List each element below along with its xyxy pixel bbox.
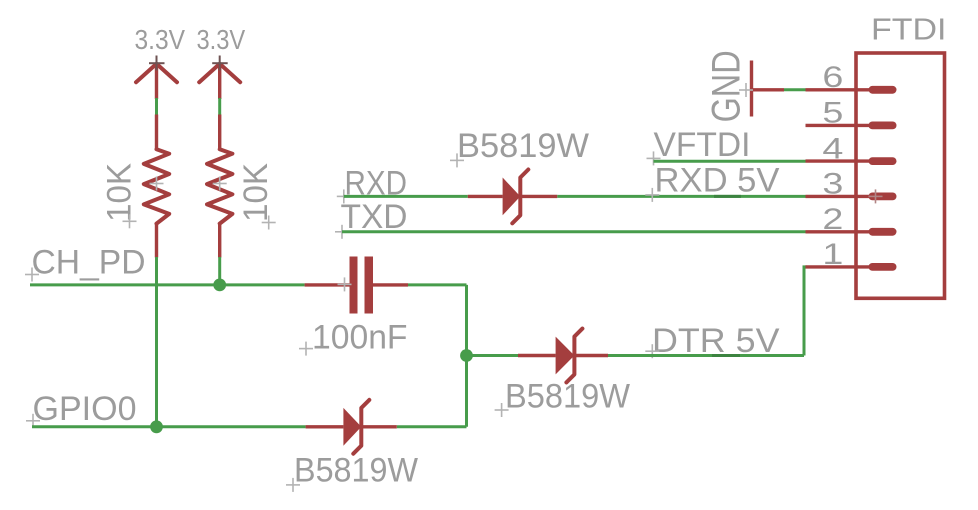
wire CH_PD right of capacitor: [408, 283, 467, 286]
value label B5819W (D1): [450, 127, 589, 167]
wire RXD left segment: [344, 195, 468, 198]
power +3V3 arrow symbol P2: [199, 56, 240, 100]
svg-text:B5819W: B5819W: [457, 127, 589, 165]
net label CH_PD: [25, 244, 146, 282]
svg-text:100nF: 100nF: [312, 318, 408, 356]
value label 10K (R2): [237, 163, 276, 230]
wire R1 vertical to GPIO0: [155, 257, 158, 427]
wire GPIO0 left segment: [32, 425, 306, 428]
junction DTR branch: [460, 349, 473, 362]
svg-text:3.3V: 3.3V: [197, 24, 246, 55]
net label GPIO0: [26, 390, 137, 428]
net label TXD: [335, 198, 408, 239]
wire VFTDI: [654, 160, 806, 163]
wire supply to R2: [218, 98, 221, 115]
svg-text:3.3V: 3.3V: [135, 24, 186, 55]
pin 3 lead and pad: [806, 189, 897, 203]
net label RXD_5V underscore on wire: [714, 195, 741, 198]
net label RXD_5V: [645, 161, 780, 202]
svg-text:VFTDI: VFTDI: [654, 126, 751, 164]
value label B5819W (D3): [495, 377, 630, 417]
connector FTDI body: [856, 53, 945, 298]
svg-text:5: 5: [822, 97, 843, 130]
pin 6 lead and pad: [806, 86, 897, 94]
capacitor C1: [305, 257, 408, 314]
pin 2 lead and pad: [806, 228, 897, 236]
value label 100nF: [299, 318, 408, 356]
net label DTR_5V: [645, 322, 780, 360]
svg-text:FTDI: FTDI: [871, 13, 947, 47]
resistor R2: [207, 115, 232, 258]
value label B5819W (D2): [286, 451, 418, 492]
wire DTR left segment: [467, 354, 519, 357]
diode D2 B5819W (GPIO0 line): [306, 400, 397, 454]
pin 1 lead and pad: [806, 263, 897, 271]
svg-text:1: 1: [822, 238, 843, 271]
wire R2 stub to CH_PD: [218, 257, 221, 285]
junction R2/CH_PD: [213, 279, 226, 292]
svg-text:2: 2: [822, 203, 843, 236]
pin 5 lead and pad: [806, 122, 897, 130]
svg-text:3: 3: [822, 168, 843, 201]
resistor R1: [144, 115, 169, 258]
power +3V3 arrow symbol P1: [136, 56, 177, 100]
ground symbol GND: [739, 61, 784, 117]
wire RXD_5V segment: [557, 195, 805, 198]
svg-text:RXD 5V: RXD 5V: [655, 161, 780, 199]
svg-text:B5819W: B5819W: [294, 451, 418, 489]
svg-text:GPIO0: GPIO0: [33, 390, 137, 428]
wire GND to pin 6: [784, 88, 806, 91]
wire CH_PD left segment: [30, 283, 305, 286]
svg-text:10K: 10K: [101, 163, 139, 222]
svg-text:10K: 10K: [237, 163, 275, 222]
net label VFTDI: [647, 126, 751, 166]
wire DTR right segment: [608, 354, 804, 357]
wire TXD: [342, 230, 806, 233]
net label RXD: [337, 165, 407, 204]
diode D1 B5819W (RXD line): [468, 170, 558, 224]
net label DTR_5V underscore on wire: [712, 354, 740, 357]
svg-text:GND: GND: [705, 50, 749, 122]
pin 4 lead and pad: [806, 157, 897, 165]
wire DTR vertical to pin 1: [804, 267, 807, 356]
wire supply to R1: [155, 98, 158, 115]
svg-text:B5819W: B5819W: [505, 377, 630, 415]
svg-text:6: 6: [822, 61, 843, 94]
wire vertical cap to GPIO0 row: [465, 285, 468, 427]
svg-text:CH_PD: CH_PD: [32, 244, 146, 282]
svg-text:4: 4: [822, 132, 843, 165]
wire GPIO0 right of diode D2: [397, 425, 467, 428]
junction R1/GPIO0: [150, 420, 163, 433]
value label 10K (R1): [101, 163, 139, 229]
diode D3 B5819W (DTR line): [518, 329, 608, 383]
